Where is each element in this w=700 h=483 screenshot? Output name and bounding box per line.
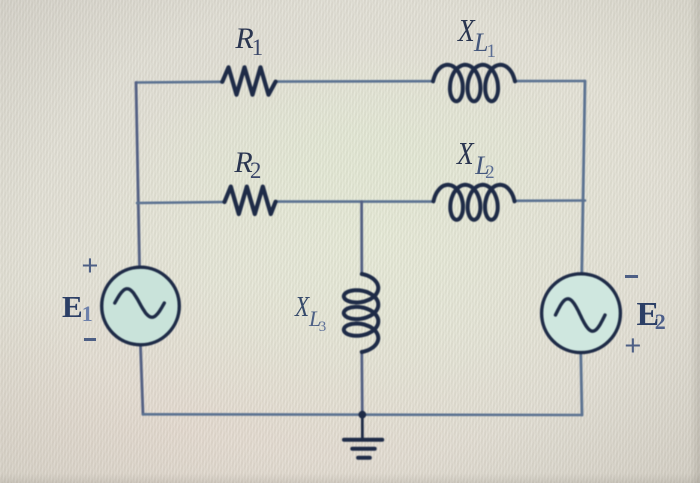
wire: left rail lower segment — [141, 346, 144, 414]
wire: XL3 branch upper — [360, 202, 363, 274]
resistor R1 — [222, 67, 275, 94]
ground — [344, 415, 382, 458]
wire: middle horizontal — [137, 201, 585, 204]
inductor XL1 — [433, 65, 515, 102]
label E2 — [637, 298, 660, 332]
sine wave of E1 — [115, 289, 165, 317]
wire: XL3 branch lower — [360, 352, 363, 415]
label E1 — [62, 291, 83, 322]
wire: right rail lower segment — [581, 353, 582, 415]
polarity - of E2 — [625, 275, 638, 279]
inductor XL2 — [434, 185, 515, 220]
wire: right vertical rail — [582, 81, 585, 273]
wire: left vertical rail — [136, 83, 140, 267]
label XL1 — [458, 14, 475, 46]
resistor R2 — [225, 187, 276, 214]
polarity + of E2 — [624, 332, 641, 361]
AC source E2 — [542, 274, 621, 353]
AC source E1 — [102, 267, 180, 345]
polarity - of E1 — [84, 338, 96, 342]
label R2 — [234, 148, 252, 178]
label R1 — [235, 24, 253, 54]
node: junction dot at XL3/bottom wire — [358, 411, 366, 419]
polarity + of E1 — [82, 252, 99, 281]
wire: bottom horizontal — [143, 413, 582, 416]
label XL3 — [295, 293, 309, 322]
sine wave of E2 — [556, 299, 606, 331]
label XL2 — [457, 137, 474, 169]
wire: top horizontal — [136, 81, 585, 83]
inductor XL3 — [344, 274, 379, 352]
